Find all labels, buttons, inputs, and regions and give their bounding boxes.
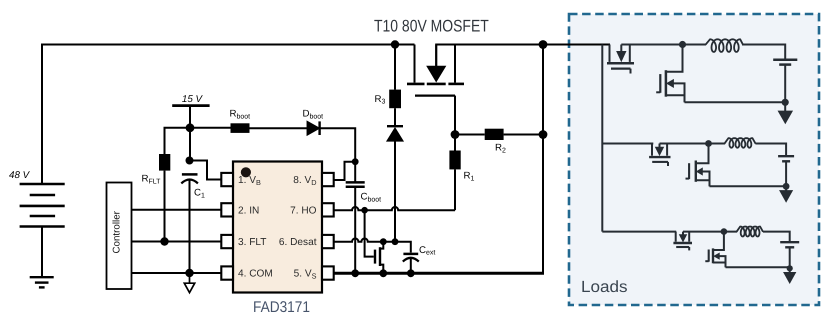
svg-text:7. HO: 7. HO [290,205,317,216]
wire: load 3 ground return [726,266,790,268]
transistor Q3: body diode stub + arrow [682,232,684,235]
resistor R2 [485,129,504,140]
wire: battery V3 negative down [789,247,791,272]
node: C1 top / VB branch [186,157,194,165]
transistor M5 (sync FET, load 3): channel bar [712,248,714,263]
wire: M2 gate line [365,210,374,256]
wire: L2 to battery [755,144,786,157]
battery V3 (load 3) [780,241,799,243]
transistor T10: body diode [428,67,446,82]
transistor T10: body diode stub [435,45,437,67]
ground arrow load 1 [778,111,792,123]
capacitor C1 [182,173,198,176]
transistor M4 (sync FET, load 2): channel bar [695,161,697,182]
wire: M2 source [380,265,383,274]
node: 15V / Rboot / RFLT junction [186,123,195,132]
node: R3 tap on top rail [391,40,399,48]
ground: 48V return [30,277,54,287]
inductor L1 [706,39,744,52]
pin 8 stub (VD) [322,173,334,186]
wire: Desat (pin 6) with hops [333,239,411,253]
wire: controller to COM (pin 4) [132,272,222,274]
node: R1 / R2 / T10 gate [451,130,460,139]
wire: HO (pin 7) with hops over Cboot and desat lines [333,207,455,210]
node: load 1 return junction [782,99,789,106]
transistor M5: gate bar [708,250,710,262]
node: top rail / right rail [539,40,548,49]
wire: M5 body tie [719,256,725,267]
wire: load 1 ground return [685,101,786,103]
transistor Q3: gate bar [676,246,689,248]
transistor T10: channel bars [407,83,464,86]
pin 1 stub (VB) [221,173,233,186]
transistor M2 channel bar [379,247,381,266]
wire: controller to FLT (pin 3) [132,241,222,243]
inductor L3 [737,227,764,237]
wire: T10 gate lead down to R1/R2 node [454,96,456,135]
wire: feed line down to loads 2 and 3 [601,45,603,232]
wire: load 1 switch node [621,44,706,46]
transistor M2 gate bar [374,250,376,264]
transistor T10: drain stub [414,45,416,83]
wire: R1 top lead [454,135,456,151]
diode D1 desat (pointing up) [387,125,403,127]
node: R2 / right rail [539,130,548,139]
transistor T10: gate bar [415,94,455,96]
diode Dboot [307,122,319,135]
transistor Q1: channel bar [607,62,634,65]
wire: RFLT to FLT line [164,171,166,242]
capacitor Cboot [346,182,365,186]
wire: M3 gate stub [656,91,660,93]
MAIN CIRCUIT [9,16,610,316]
wire: C1 bottom to COM [189,180,191,273]
transistor Q1 (high-side switch, load 1): drain stub [609,45,611,62]
node: Cboot / VS [351,269,359,277]
transistor Q2: channel bar [649,156,670,158]
node: HO to M2 gate [361,207,368,214]
svg-text:Loads: Loads [581,278,628,296]
ground arrow load 3 [784,273,796,284]
transistor Q3 (high-side switch, load 3): drain stub [675,232,677,242]
pin 7 stub (HO) [322,203,334,216]
pin 2 stub (IN) [221,203,233,216]
resistor Rboot [231,123,250,133]
wire: load 2 ground return [710,185,787,187]
svg-text:4. COM: 4. COM [238,269,273,280]
wire: controller to IN (pin 2) [132,209,222,211]
wire: battery V1 negative down [784,65,786,111]
wire: bootstrap rail from 15V node [190,127,231,129]
node: VD branch / Cboot top [352,158,359,165]
wire: D1 to desat line [394,141,396,242]
transistor M3: gate bar [659,74,661,93]
wire: M3 body tie [673,83,684,102]
svg-text:6. Desat: 6. Desat [279,237,317,248]
supply rail 15 V [172,104,209,107]
transistor Q2: source stub [666,144,668,156]
wire: 15V down to C1 node [189,106,191,161]
wire: Cboot top lead [354,162,356,182]
transistor T10: source stub [454,45,456,83]
node: desat diode junction [392,238,399,245]
node: load 1 switch node [679,41,686,48]
capacitor Cext [403,253,418,256]
battery 48 V [20,184,65,227]
wire: Q1 gate stub [630,69,632,74]
battery V2 (load 2) [778,155,794,157]
wire: load 3 switch node [683,231,737,233]
svg-text:2. IN: 2. IN [238,205,259,216]
wire: Cboot bottom to VS rail [354,187,356,272]
wire: battery negative down [41,227,43,278]
transistor M3: body arrow [667,80,673,87]
transistor Q1: source stub [629,45,631,62]
wire: C1 node to pin 1 VB [190,161,222,180]
LOADS [602,39,799,283]
pin 4 stub (COM) [221,266,233,279]
wire: M4 body tie [702,172,709,187]
wire: M2 drain [380,242,383,249]
transistor M4: body arrow [697,168,703,175]
svg-text:3. FLT: 3. FLT [238,237,266,248]
transistor Q1: body diode stub + arrow [620,45,622,52]
node: M2 source / VS [379,269,387,277]
wire: M3 source [666,95,685,102]
ground arrow load 2 [780,191,792,202]
svg-text:FAD3171: FAD3171 [253,299,310,316]
wire: battery positive up and along top rail [42,45,415,185]
wire: R1 bottom lead from HO [454,169,456,210]
battery V1 (load 1) [773,58,797,61]
transistor M5: body arrow [714,253,719,259]
node: load 3 switch node [721,228,728,235]
transistor Q3: channel bar [673,242,692,244]
resistor R1 [449,151,460,170]
ground: COM open triangle [184,273,194,293]
pin 5 stub (VS) [322,266,334,279]
transistor M3 (sync FET, load 1): channel bar [665,70,668,97]
transistor Q1: gate bar [611,67,631,69]
resistor R3 [389,90,401,109]
wire: L1 to battery [742,45,785,60]
transistor Q2: gate bar [652,161,668,163]
wire: desat sense from top rail to R3 [394,45,396,90]
wire: M4 source [696,180,710,186]
inductor L2 [724,138,755,148]
pin 6 stub (Desat) [322,235,334,248]
wire: L3 to battery [763,232,790,242]
wire: load 3 branch [602,231,676,233]
svg-text:15 V: 15 V [182,94,204,105]
IC U1 FAD3171 body [233,162,322,293]
svg-text:48 V: 48 V [9,170,31,181]
wire: R3 to diode D1 [394,108,396,126]
svg-text:Controller: Controller [112,210,123,253]
wire: node to R2 [455,134,485,136]
transistor Q2: body diode stub + arrow [659,144,661,148]
wire: battery V2 negative down [785,161,787,190]
pin 1 marker dot [241,167,251,177]
pin 3 stub (FLT) [221,235,233,248]
wire: pin 8 VD branch [333,162,352,180]
VS rail (pin 5) thick [333,272,544,275]
wire: M5 drain lead [713,232,724,250]
wire: M5 gate stub [705,260,708,262]
loads dashed box [569,14,819,305]
wire: Dboot to VD/Cboot branch [320,128,356,162]
svg-text:T10 80V MOSFET: T10 80V MOSFET [374,16,489,35]
wire: right rail [542,45,544,274]
node: RFLT / FLT junction [160,237,168,245]
wire: top rail right portion [436,45,610,67]
wire: M3 drain lead [666,45,683,72]
node: COM / C1 ground junction [185,269,193,277]
resistor RFLT [159,154,170,171]
wire: R2 to right rail [504,134,543,136]
node: load 2 switch node [705,140,712,147]
transistor M4: gate bar [688,163,690,179]
wire: M4 drain lead [696,144,709,164]
wire: Q2 gate stub [667,162,669,166]
wire: Q3 gate stub [688,247,690,250]
controller U2 [107,183,132,290]
wire: Rboot to Dboot [250,127,308,129]
wire: M4 gate stub [686,178,690,180]
wire: load 2 branch [602,143,653,145]
transistor Q2 (high-side switch, load 2): drain stub [651,144,653,156]
node: load 2 return junction [783,183,790,190]
node: Cext / VS [407,269,415,277]
wire: load 2 switch node [660,143,726,145]
transistor Q3: source stub [688,232,690,242]
node: load 3 return junction [787,265,793,271]
node: M2 drain / desat [380,238,387,245]
wire: branch to RFLT [165,128,191,154]
wire: M5 source [713,263,726,268]
